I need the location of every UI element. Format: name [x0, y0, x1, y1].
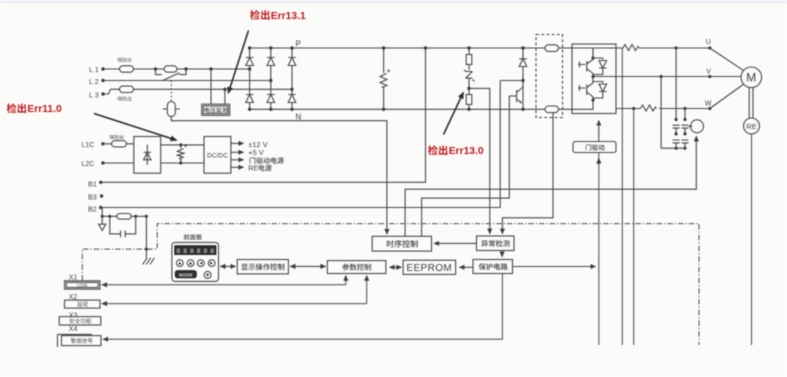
- fuse F-C: [112, 141, 127, 147]
- node L1 terminal: [101, 67, 104, 70]
- transistor Q-brake emitter arrow: [519, 100, 522, 103]
- wire VM sense from L3: [224, 91, 226, 104]
- label 监视: [77, 302, 88, 307]
- arrow EEPROM to parameter: [390, 266, 402, 268]
- wire L1 main line: [105, 68, 250, 70]
- connector X1 USB box: [65, 281, 101, 289]
- IGBT module internal P link: [572, 48, 593, 58]
- wire V motor lead: [710, 76, 741, 78]
- annotation Err13.1: [271, 11, 306, 22]
- svg-text:B2: B2: [88, 204, 97, 213]
- wire USB to parameter control: [345, 276, 347, 285]
- annotation Err11.0: [27, 104, 62, 115]
- node C2 top: [179, 143, 182, 146]
- node N-leg1: [248, 108, 251, 111]
- svg-text:W: W: [705, 100, 712, 107]
- arrow out RE power: [231, 166, 244, 168]
- gate drive box: [573, 142, 616, 153]
- wire DB W drop: [684, 109, 686, 120]
- voltage monitor box U-VM: [202, 104, 230, 115]
- node bus-1: [101, 215, 104, 218]
- node boundary crossing: [145, 248, 148, 251]
- rectifier leg 1: [249, 48, 251, 109]
- wire protect output: [513, 266, 596, 268]
- node V terminal: [708, 75, 711, 78]
- resistor Rd1: [466, 55, 472, 65]
- node divider-P: [467, 46, 470, 49]
- node IGBT bottom: [591, 98, 594, 101]
- shunt N connector: [545, 106, 559, 113]
- wire L3 main line: [134, 88, 293, 90]
- node J3: [209, 67, 212, 70]
- node J5: [223, 88, 226, 91]
- arrow detect to timing: [434, 242, 477, 244]
- node P-leg1: [248, 46, 251, 49]
- resistor R-W: [641, 105, 657, 111]
- arrow panel to display: [220, 265, 235, 267]
- wire W output: [616, 108, 710, 110]
- node J2: [184, 67, 187, 70]
- node DB contacts b1: [675, 132, 678, 135]
- wire encoder feedback: [751, 134, 753, 345]
- node IGBT top: [591, 56, 594, 59]
- svg-text:USB: USB: [77, 284, 88, 290]
- wire brake leg: [522, 48, 524, 109]
- relay coil RY2: [691, 120, 704, 133]
- node N-leg3: [290, 108, 293, 111]
- svg-text:+: +: [387, 68, 391, 75]
- wire U output: [593, 48, 710, 58]
- timing control box: [372, 236, 431, 251]
- svg-text:+5 V: +5 V: [248, 148, 263, 157]
- node bus-3: [134, 215, 137, 218]
- wire bus to chassis: [145, 216, 147, 257]
- arrow detect to protect: [501, 251, 503, 257]
- svg-text:Err13.1: Err13.1: [271, 11, 306, 22]
- label 参数控制: [342, 264, 371, 271]
- annotation 检出 (Err13.0): [428, 145, 447, 155]
- wire B2 filter drop: [101, 208, 103, 217]
- node DB contacts a1: [675, 118, 678, 121]
- node W terminal: [708, 107, 711, 110]
- node C1-P: [382, 46, 385, 49]
- resistor Rd2: [466, 95, 472, 105]
- node B1 terminal: [99, 181, 102, 184]
- button SET: [204, 271, 211, 278]
- shunt P connector: [545, 45, 559, 52]
- contact DB-1: [673, 125, 680, 148]
- node L3 terminal: [101, 92, 104, 95]
- label 保护电路: [479, 263, 508, 270]
- node L2-leg2: [269, 79, 272, 82]
- diode D-brake: [519, 59, 527, 67]
- arrow out gate power: [231, 159, 244, 161]
- connector X4 alarm box: [58, 334, 102, 347]
- wire brake base: [422, 96, 517, 236]
- label 安全功能: [69, 318, 91, 323]
- connector X2 monitor box: [65, 300, 101, 308]
- boundary dash-dot: [82, 224, 699, 345]
- label 异常检测: [481, 240, 509, 247]
- fuse F-bus: [117, 214, 131, 220]
- label 电压监测: [205, 107, 228, 113]
- node C1-N: [382, 108, 385, 111]
- label 警报信号: [71, 338, 93, 343]
- transistor Q-brake: [517, 87, 523, 103]
- label 显示操作控制: [241, 263, 284, 270]
- IGBT module internal N link: [572, 100, 593, 109]
- wire U motor lead: [710, 48, 743, 70]
- node brake-P: [521, 46, 524, 49]
- button B1p: [176, 260, 183, 267]
- label 保险丝 (F3): [117, 96, 132, 101]
- label 保险丝 (F-C): [109, 135, 124, 140]
- node P-B1: [424, 46, 427, 49]
- wire alarm signal: [103, 274, 502, 340]
- svg-text:X4: X4: [69, 326, 78, 333]
- top edge shading: [0, 0, 787, 3]
- divider leg: [468, 48, 470, 109]
- button MODE: [175, 271, 196, 278]
- diode D2: [246, 95, 254, 103]
- capacitor C-bus loop: [110, 216, 136, 237]
- node DB contacts c2: [683, 147, 686, 150]
- svg-text:Err11.0: Err11.0: [27, 104, 62, 115]
- connector X3 safety box: [59, 317, 101, 325]
- panel display window: [175, 246, 216, 255]
- node J4: [248, 67, 251, 70]
- ground sym1: [99, 216, 106, 230]
- svg-text:U: U: [706, 39, 711, 46]
- diode D-high: [593, 58, 607, 75]
- node B2 terminal: [99, 206, 102, 209]
- resistor R-inrush: [164, 66, 177, 72]
- wire W sense drop: [633, 109, 635, 346]
- wire L1C: [105, 143, 134, 145]
- transistor IGBT-high: [578, 58, 593, 77]
- wire coil link: [688, 125, 692, 127]
- wire filter bus: [102, 215, 146, 217]
- node brake-N: [521, 108, 524, 111]
- node DB-W tap: [683, 107, 686, 110]
- wire divider sense to error detect: [469, 88, 490, 233]
- button B2p: [187, 260, 194, 267]
- node DB contacts c1: [675, 147, 678, 150]
- arrow Err13.0: [444, 93, 464, 135]
- button B3p: [197, 260, 204, 267]
- svg-text:L2C: L2C: [82, 161, 95, 168]
- node bus-4: [145, 215, 148, 218]
- front panel box: [172, 242, 219, 281]
- display operation control box: [237, 260, 288, 274]
- node divider-N: [467, 108, 470, 111]
- node B3 terminal: [100, 194, 103, 197]
- arrow protect to EEPROM: [459, 266, 473, 268]
- svg-text:RE: RE: [248, 165, 258, 172]
- svg-text:EEPROM: EEPROM: [406, 263, 452, 274]
- wire gate drive down: [598, 153, 600, 346]
- arrow parameter to display: [290, 265, 325, 267]
- fuse F1: [120, 66, 134, 72]
- annotation 检出 (Err11.0): [7, 103, 26, 113]
- rectifier leg 3: [291, 48, 293, 109]
- node DB contacts b2: [683, 132, 686, 135]
- abnormality detect box: [477, 236, 515, 251]
- node DB-U tap: [675, 46, 678, 49]
- diode D5: [288, 58, 296, 66]
- zener ZD1: [464, 70, 475, 81]
- wire gate drive to IGBT: [598, 121, 600, 142]
- contact DB-2: [682, 125, 689, 148]
- svg-text:Err13.0: Err13.0: [449, 146, 484, 157]
- node W sense tap: [632, 107, 635, 110]
- node bus-2: [108, 215, 111, 218]
- relay bypass contact S1: [156, 69, 187, 80]
- svg-text:L 2: L 2: [89, 77, 99, 86]
- arrow out 12V: [231, 142, 244, 144]
- wire N rail: [250, 108, 572, 110]
- label 前面板: [184, 234, 202, 240]
- svg-text:L1C: L1C: [82, 142, 95, 149]
- svg-text:V: V: [706, 68, 711, 75]
- dotted relay link: [170, 81, 172, 102]
- arrow Err11.0: [94, 114, 177, 141]
- parameter control box: [327, 261, 386, 274]
- wire DB V drop: [661, 77, 685, 149]
- svg-text:MODE: MODE: [179, 272, 193, 277]
- wire relay coil to timing control: [171, 117, 387, 235]
- label RE电源: [259, 165, 272, 172]
- diode D-ctrl: [144, 145, 151, 166]
- arrow protect to gate drive: [598, 158, 600, 165]
- node DB contacts a2: [683, 118, 686, 121]
- node C2 bottom: [179, 161, 182, 164]
- svg-text:+: +: [184, 144, 188, 150]
- node L1C terminal: [101, 142, 104, 145]
- button B4p: [208, 260, 215, 267]
- wire DB drive from timing: [405, 136, 696, 236]
- fuse F3: [120, 86, 134, 92]
- motor M1: [741, 67, 762, 88]
- node brake collector: [521, 79, 524, 82]
- chassis ground: [143, 258, 155, 265]
- protect circuit box: [473, 260, 513, 274]
- label 保险丝 (F1): [117, 58, 132, 63]
- svg-text:M: M: [746, 71, 756, 85]
- svg-text:L 1: L 1: [89, 65, 99, 74]
- wire L2C: [105, 162, 134, 164]
- relay coil RY1: [163, 102, 180, 117]
- diode D-low: [593, 82, 607, 99]
- wire VM sense from L1: [210, 71, 212, 105]
- svg-text:B1: B1: [88, 179, 97, 188]
- diode D6: [288, 95, 296, 103]
- svg-text:L 3: L 3: [89, 90, 99, 99]
- svg-text:N: N: [296, 113, 302, 122]
- node P-leg2: [269, 46, 272, 49]
- wire P rail: [250, 47, 572, 49]
- node L2C terminal: [101, 161, 104, 164]
- capacitor C1 bus: [380, 48, 387, 109]
- svg-text:B3: B3: [88, 193, 97, 202]
- node J1: [154, 67, 157, 70]
- button glyphs: [178, 262, 213, 265]
- wire W motor lead: [710, 85, 743, 109]
- EEPROM box: [403, 260, 456, 274]
- IGBT module U1: [572, 44, 616, 114]
- wire L3 jog: [105, 89, 120, 94]
- wire L2 main line: [105, 80, 271, 82]
- rectifier leg 2: [270, 48, 272, 109]
- svg-text:P: P: [296, 40, 301, 49]
- DCDC converter box: [204, 137, 231, 174]
- motor shaft: [749, 88, 753, 118]
- connector box dashed CN: [536, 35, 563, 118]
- node divider mid: [467, 87, 470, 90]
- wire P to B1: [101, 48, 426, 182]
- encoder RE1: [744, 118, 760, 134]
- annotation 检出 (Err13.1): [250, 10, 269, 20]
- button SET glyph: [206, 274, 209, 277]
- wire monitor to parameter control: [366, 276, 368, 304]
- node U terminal: [708, 46, 711, 49]
- svg-text:RE: RE: [746, 122, 757, 131]
- transistor IGBT-low: [578, 77, 593, 101]
- svg-text:DC/DC: DC/DC: [207, 153, 228, 160]
- wire DB U drop: [675, 48, 677, 120]
- resistor R-U: [623, 45, 639, 51]
- arrow out 5V: [231, 151, 244, 153]
- bridge box U-rect: [134, 137, 161, 174]
- label 门驱动电源: [250, 157, 284, 164]
- node N-leg2: [269, 108, 272, 111]
- wire B2 riser: [101, 81, 501, 208]
- diode D1: [246, 58, 254, 66]
- wire ctrl dc top: [161, 144, 204, 146]
- node P-leg3: [290, 46, 293, 49]
- wire U sense drop: [621, 48, 623, 345]
- wire V output: [593, 76, 710, 78]
- arrow Err13.1: [228, 31, 248, 94]
- label 门驱动: [586, 144, 605, 150]
- diode D4: [267, 95, 275, 103]
- wire ctrl dc bottom: [161, 162, 204, 164]
- wire brake collector to B2 riser: [500, 80, 523, 82]
- capacitor C2: [177, 145, 184, 163]
- node DB-V tap: [660, 75, 663, 78]
- annotation Err13.0: [449, 146, 484, 157]
- label 时序控制: [387, 240, 418, 248]
- wire N shunt sense: [502, 109, 553, 234]
- diode D3: [267, 58, 275, 66]
- node L3-leg3: [290, 88, 293, 91]
- node IGBT mid: [591, 75, 594, 78]
- node L2 terminal: [101, 79, 104, 82]
